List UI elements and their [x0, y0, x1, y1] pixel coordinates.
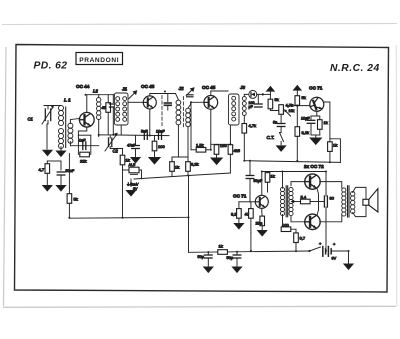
collector wire up: [87, 95, 115, 113]
svg-text:10µF: 10µF: [301, 117, 310, 121]
svg-text:0,7: 0,7: [300, 236, 306, 241]
driver base bias resistors: [239, 201, 250, 203]
svg-text:4,7k: 4,7k: [249, 123, 257, 128]
bottom bus of stage1/2: [99, 135, 169, 137]
junction dots: [85, 94, 87, 96]
svg-text:⏚5mA⁄: ⏚5mA⁄: [127, 182, 140, 187]
cap: [112, 95, 114, 103]
secondary to output bases: [291, 182, 305, 186]
secondary coil: [68, 123, 73, 143]
svg-text:5,4: 5,4: [301, 195, 307, 200]
antenna core: [65, 107, 67, 148]
svg-text:L2: L2: [93, 89, 99, 94]
svg-text:J2: J2: [179, 86, 185, 91]
big cap on feedback vertical: [325, 172, 327, 197]
svg-text:5k: 5k: [275, 97, 279, 102]
J3 right to audio rail vertical: [243, 116, 245, 124]
svg-text:1k: 1k: [175, 165, 179, 170]
resistor 4.7k: [45, 164, 50, 174]
emitter resistor: [261, 209, 263, 216]
svg-text:100: 100: [282, 223, 289, 228]
svg-text:1k: 1k: [333, 143, 337, 148]
svg-text:50nF: 50nF: [66, 169, 75, 173]
bias resistor near 50uF: [267, 172, 269, 173]
PRANDONI box: [76, 53, 123, 65]
collector rails: [320, 182, 342, 188]
svg-text:C2: C2: [113, 149, 119, 154]
svg-text:10nF: 10nF: [156, 130, 165, 134]
svg-text:N.R.C. 24: N.R.C. 24: [330, 63, 380, 74]
svg-text:8,2k: 8,2k: [191, 162, 199, 167]
svg-text:OC 71: OC 71: [309, 86, 323, 91]
shunt cap 1: [207, 252, 209, 255]
primary bottom to rail: [281, 215, 284, 230]
svg-text:5n: 5n: [273, 121, 277, 125]
svg-text:C.T.: C.T.: [267, 135, 275, 140]
svg-text:OC 44: OC 44: [76, 84, 90, 89]
svg-text:150: 150: [220, 143, 227, 148]
svg-text:1k: 1k: [324, 120, 328, 125]
wire osc to 5k: [68, 154, 70, 194]
emitter wire: [78, 127, 86, 135]
svg-text:30: 30: [330, 196, 335, 201]
coil L2: [97, 98, 101, 120]
collector to transformer: [262, 172, 326, 195]
svg-text:OC 45: OC 45: [141, 84, 155, 89]
cap + C.T. switch: [280, 114, 282, 122]
svg-text:100: 100: [158, 144, 165, 149]
svg-text:8,2: 8,2: [231, 212, 237, 217]
svg-text:1,5k: 1,5k: [196, 143, 204, 148]
emitter network: [311, 111, 317, 119]
svg-text:4,7k: 4,7k: [286, 103, 294, 108]
faint page right edge: [395, 45, 398, 306]
resistor 4k5: [107, 95, 109, 103]
bias chain: [294, 86, 302, 91]
emitter leads to mid line: [317, 188, 319, 202]
resistor 5k: [67, 194, 72, 204]
resistors 1k / 8.2k: [170, 162, 175, 172]
collector wire: [150, 94, 176, 96]
1k resistor chain down: [122, 149, 124, 156]
mid line: arrow + resistor + cap: [292, 201, 302, 203]
ground under C1: [43, 150, 52, 155]
ground under coil: [56, 151, 65, 156]
IF transformer J1: [114, 93, 128, 125]
J2 bottom legs: [172, 125, 178, 162]
resistor 1.5k: [196, 148, 206, 153]
variable capacitor C1: [42, 106, 54, 150]
svg-text:10k: 10k: [289, 109, 295, 113]
diode detector: [244, 94, 249, 96]
J2 out to base: [188, 102, 204, 108]
resistor 22k: [80, 152, 90, 157]
schematic frame border: [15, 45, 389, 293]
left bias RC pair: [47, 161, 61, 170]
svg-text:PD. 62: PD. 62: [34, 61, 68, 72]
series caps on bottom bus: [144, 132, 147, 140]
svg-text:L 1: L 1: [64, 98, 71, 103]
svg-text:1k: 1k: [126, 158, 130, 163]
transistor OC44: [79, 112, 94, 127]
J1 out to OC45 base: [128, 101, 143, 103]
variable cap C2: [105, 133, 123, 151]
faint page left edge: [4, 47, 7, 306]
speaker: [363, 199, 369, 205]
AGC line: [134, 176, 189, 180]
svg-text:C1: C1: [28, 117, 33, 122]
svg-text:J3: J3: [240, 85, 246, 90]
svg-text:45: 45: [102, 106, 106, 110]
svg-text:9V: 9V: [332, 257, 337, 261]
antenna coil L1: [58, 105, 63, 125]
dashed shield line: [161, 96, 163, 128]
svg-text:5k: 5k: [302, 95, 306, 100]
svg-text:8,2k: 8,2k: [302, 130, 310, 135]
IF transformer J3: [229, 94, 240, 125]
svg-text:47nF: 47nF: [127, 144, 136, 148]
grounds: [43, 186, 52, 191]
secondary wires to speaker: [353, 187, 366, 199]
svg-text:1k: 1k: [271, 174, 275, 179]
volume chain: [267, 87, 275, 92]
svg-text:22k: 22k: [80, 159, 86, 164]
svg-text:1k: 1k: [219, 244, 223, 249]
switch + battery: [308, 250, 310, 252]
cap 50nF: [57, 172, 65, 175]
series resistor on rail: [218, 250, 228, 255]
svg-text:25µ: 25µ: [256, 221, 263, 226]
svg-text:50µ: 50µ: [198, 255, 205, 259]
faint page bottom edge: [3, 306, 396, 307]
IF transformer J2: [176, 100, 190, 127]
svg-text:50µ: 50µ: [227, 256, 234, 260]
shunt cap 2: [236, 252, 238, 255]
wire antenna top: [44, 105, 61, 107]
bypass cap: [135, 136, 137, 145]
collector chain: [324, 102, 330, 147]
neutralizing cap: [167, 94, 169, 102]
svg-text:4k5: 4k5: [234, 148, 241, 153]
bias vertical: [190, 102, 192, 150]
svg-text:1nF: 1nF: [79, 139, 86, 143]
AL5 thermistor: [123, 169, 130, 171]
wire coil bottom: [60, 147, 62, 151]
svg-text:OC 71: OC 71: [233, 194, 247, 199]
bottom rail: [189, 251, 310, 252]
svg-text:5nF: 5nF: [141, 130, 148, 134]
svg-text:OC 45: OC 45: [202, 85, 216, 90]
emitter RC network: [71, 135, 99, 154]
base wire from pot: [288, 106, 310, 108]
svg-text:J1: J1: [122, 87, 128, 92]
emitter top bus: [211, 143, 231, 145]
svg-text:47: 47: [245, 212, 250, 217]
emitter wire: [149, 109, 151, 135]
svg-text:2x OC 72: 2x OC 72: [304, 164, 324, 169]
faint page top edge: [2, 24, 397, 25]
svg-text:5k: 5k: [74, 197, 78, 202]
svg-text:4,7: 4,7: [39, 167, 45, 172]
emitter resistor 100: [154, 136, 156, 142]
potentiometer arrow: [284, 109, 291, 116]
svg-text:AL5: AL5: [129, 163, 136, 167]
svg-text:PRANDONI: PRANDONI: [79, 57, 119, 64]
